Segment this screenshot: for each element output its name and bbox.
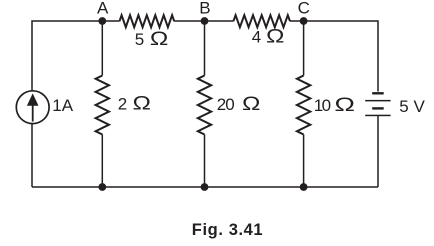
svg-text:Ω: Ω (334, 95, 355, 116)
wire node C down to 10-ohm (303, 21, 305, 76)
wire top-left from corner to 5-ohm resistor (32, 21, 120, 91)
svg-text:Ω: Ω (150, 28, 168, 50)
svg-text:B: B (199, 0, 210, 18)
battery V1 plates (365, 92, 390, 116)
svg-text:4: 4 (252, 28, 261, 47)
wire 20-ohm to bottom (204, 135, 206, 188)
bottom junction dot B (201, 183, 209, 191)
wire node A down to 2-ohm (101, 21, 103, 76)
svg-text:5 V: 5 V (399, 97, 425, 116)
resistor 10 ohm (297, 76, 310, 135)
svg-text:Ω: Ω (242, 93, 260, 115)
svg-text:Ω: Ω (133, 92, 151, 114)
resistor 2 ohm (96, 76, 109, 135)
wire top-right from 4-ohm to battery corner (290, 21, 378, 92)
wire top between 5-ohm and 4-ohm (174, 20, 233, 22)
wire left bottom from current source to corner (31, 124, 33, 187)
svg-text:10: 10 (314, 96, 331, 115)
node C junction dot (300, 17, 308, 25)
wire 10-ohm to bottom (303, 135, 305, 188)
svg-text:1A: 1A (52, 96, 73, 115)
resistor 20 ohm (198, 76, 211, 135)
svg-text:Fig. 3.41: Fig. 3.41 (192, 221, 263, 239)
wire bottom (32, 186, 378, 188)
bottom junction dot C (300, 183, 308, 191)
bottom junction dot A (98, 183, 106, 191)
wire 2-ohm to bottom (101, 135, 103, 188)
svg-text:5: 5 (135, 30, 144, 49)
node A junction dot (98, 17, 106, 25)
svg-text:C: C (298, 0, 310, 18)
wire node B down to 20-ohm (204, 21, 206, 76)
resistor 4 ohm (233, 15, 290, 27)
wire right below battery (377, 116, 379, 187)
svg-text:20: 20 (217, 95, 234, 114)
svg-text:Ω: Ω (266, 25, 284, 47)
node B junction dot (201, 17, 209, 25)
svg-text:2: 2 (118, 94, 127, 113)
current source I1 circle (16, 91, 49, 124)
svg-text:A: A (97, 0, 109, 18)
resistor 5 ohm (120, 15, 175, 27)
current source arrow (27, 93, 39, 121)
